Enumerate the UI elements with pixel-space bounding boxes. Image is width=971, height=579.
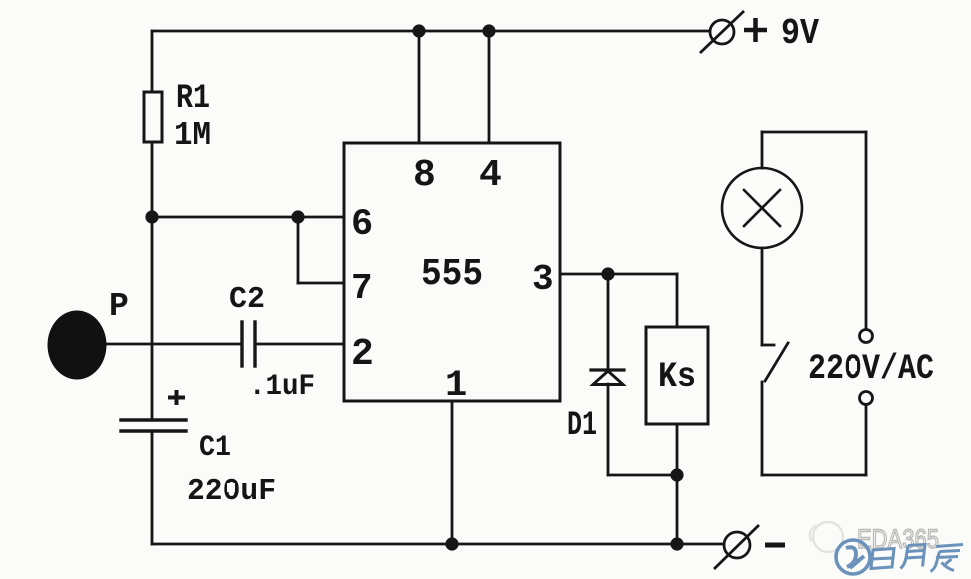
node junction top pin4: [482, 24, 495, 37]
wire left rail mid: [151, 142, 154, 420]
svg-text:C1: C1: [199, 431, 231, 465]
wire 220V right upper: [865, 132, 868, 329]
watermark swirl ghost: [810, 522, 843, 552]
switch S blade: [765, 343, 788, 381]
microphone P: [48, 311, 107, 380]
terminal 220V lower: [860, 392, 873, 405]
relay Ks: [646, 327, 708, 424]
wire lamp bottom lead: [761, 248, 764, 345]
wire 220V bottom: [762, 474, 866, 477]
wire bottom rail: [152, 543, 724, 546]
wire switch bottom: [761, 382, 764, 475]
svg-text:7: 7: [351, 268, 373, 309]
node junction pin3: [601, 267, 614, 280]
switch S fixed contact hook: [762, 344, 774, 347]
wire D1 bottom: [607, 384, 610, 475]
wire mic to C2: [104, 343, 242, 346]
wire C2 to pin2: [255, 343, 344, 346]
node junction bottom rail Ks: [670, 537, 683, 550]
logo swirl circle: [836, 540, 870, 574]
svg-text:1: 1: [445, 365, 467, 407]
polarity plus 9V: [744, 18, 767, 42]
wire D1 anode down: [607, 274, 610, 370]
terminal +9V slash: [701, 12, 743, 52]
terminal minus slash: [715, 526, 758, 568]
node junction pin7 tap: [291, 210, 304, 223]
lamp branch top wire: [762, 131, 866, 134]
capacitor C1: [121, 420, 186, 431]
terminal minus circle: [724, 532, 750, 558]
svg-text:555: 555: [421, 253, 483, 296]
wire Ks bottom: [676, 424, 679, 475]
svg-text:220V/AC: 220V/AC: [808, 349, 934, 389]
wire pin3: [560, 273, 677, 276]
lamp EL: [722, 168, 802, 248]
wire D1 to Ks junction: [608, 474, 677, 477]
wire Ks junction to bottom rail: [676, 475, 679, 544]
logo char chen: [931, 545, 964, 572]
wire 220V right lower: [865, 405, 868, 475]
minus sign: [765, 543, 785, 548]
op-amp U1 555 box: [344, 143, 560, 401]
wire left rail lower: [151, 431, 154, 544]
svg-text:3: 3: [532, 259, 554, 300]
svg-text:6: 6: [351, 204, 373, 246]
capacitor C2: [242, 322, 255, 366]
svg-text:P: P: [109, 288, 129, 325]
svg-text:1M: 1M: [174, 117, 211, 154]
node junction left rail pin6: [145, 210, 158, 223]
node junction bottom rail pin1: [445, 537, 458, 550]
wire pin7 jog horizontal: [298, 282, 344, 285]
node junction top pin8: [412, 24, 425, 37]
wire pin7 jog vertical: [297, 217, 300, 283]
terminal +9V circle: [710, 20, 734, 44]
svg-text:9V: 9V: [781, 13, 819, 54]
wire pin6 horizontal: [152, 216, 344, 219]
wire Ks top: [676, 274, 679, 327]
svg-text:.1uF: .1uF: [249, 370, 315, 404]
svg-text:C2: C2: [229, 282, 265, 317]
terminal 220V upper: [860, 330, 873, 343]
wire left rail upper: [151, 31, 154, 92]
svg-text:2: 2: [351, 333, 374, 376]
wire pin8: [418, 31, 421, 143]
svg-text:8: 8: [413, 154, 436, 197]
wire pin1: [451, 401, 454, 544]
resistor R1: [144, 92, 162, 142]
svg-text:4: 4: [479, 154, 502, 197]
logo char ri: [871, 549, 894, 569]
svg-text:Ks: Ks: [658, 357, 696, 397]
node junction D1 Ks: [670, 468, 683, 481]
logo char yue: [901, 545, 926, 569]
wire lamp top lead: [761, 132, 764, 168]
svg-text:R1: R1: [176, 80, 210, 118]
wire top rail +9V: [152, 30, 709, 33]
diode D1: [591, 370, 624, 385]
polarity plus C1: [168, 390, 185, 405]
svg-text:D1: D1: [567, 407, 597, 445]
wire pin4: [488, 31, 491, 143]
